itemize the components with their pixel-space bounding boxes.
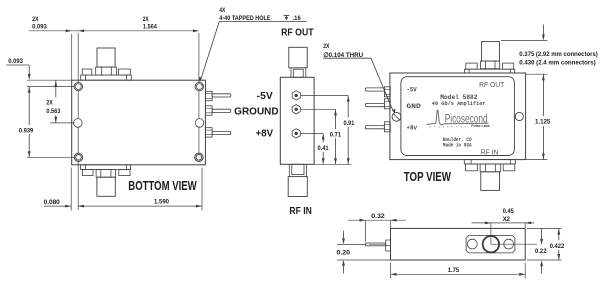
svg-text:1.564: 1.564 [143,24,157,31]
leader to tapped hole [199,21,220,82]
extension line box right top [524,223,526,229]
top view lid rounded rect [401,77,515,156]
dim 0.32 line [348,219,406,222]
bottom view RF connector (bottom) left lug [83,169,94,175]
svg-text:TOP VIEW: TOP VIEW [404,170,451,184]
side view body [280,77,314,164]
arrow at left hole line [78,29,84,32]
bottom view RF connector (bottom) flange [81,165,131,170]
svg-text:-5V: -5V [257,91,273,102]
svg-text:GND: GND [406,103,421,110]
tapped hole bottom-right [195,153,203,161]
top view supply pin 2 [365,99,390,109]
center conductor circle [483,236,499,252]
depth symbol [284,15,290,20]
extension line 1.590 right [201,168,203,211]
dim 0.22 arrows [535,229,547,274]
svg-text:2X: 2X [143,16,150,23]
tapped hole bottom-left [74,153,82,161]
svg-text:RF OUT: RF OUT [479,80,505,89]
extension line profile left top [390,220,392,228]
dim 0.20 [337,231,351,274]
label -5V [257,91,273,102]
svg-text:0.422: 0.422 [550,243,565,250]
pin line -5V [301,94,348,96]
bottom view RF connector (bottom) mid bar [96,169,116,177]
svg-text:0.45: 0.45 [503,208,514,215]
label Boulder CO [443,137,472,143]
label Model 5882 [440,94,477,101]
top view RF OUT connector flange [464,69,514,73]
top view RF IN connector flange [464,160,515,164]
svg-text:Pulse Labs: Pulse Labs [471,124,490,128]
bottom view RF connector (bottom) right lug [119,169,130,175]
leader to 0.104 hole [371,58,396,114]
picosecond logo text [445,111,488,125]
top view RF IN connector mid bar [480,164,501,172]
picosecond logo dashes [430,126,467,128]
callout underline [219,20,306,22]
label RF OUT [281,28,314,39]
tapped hole top-right [195,82,203,90]
callout 0.104 underline [323,57,371,59]
top view body outline [390,73,526,160]
bottom view RF connector (bottom) body [97,177,115,196]
svg-text:Made in USA: Made in USA [443,142,472,148]
svg-text:2X: 2X [46,99,53,106]
dim 1.125 [535,74,551,159]
dim 0.080 text [44,199,61,206]
bottom view supply pin 1 [205,91,230,100]
svg-text:RF IN: RF IN [481,147,499,156]
center conductor crosshair [491,223,537,245]
label +8V [256,129,274,140]
top view label RF IN [481,147,499,156]
svg-text:0.093: 0.093 [32,23,47,30]
svg-text:GROUND: GROUND [234,106,278,117]
extension line box left bottom [70,168,72,211]
picosecond logo pulse labs tag [471,124,490,128]
svg-text:X2: X2 [503,216,511,223]
svg-text:0.093: 0.093 [8,58,23,65]
top view supply pin 3 [365,122,390,132]
bottom view RF connector (top) left lug [82,69,92,75]
svg-text:4X: 4X [219,7,226,14]
svg-text:1.590: 1.590 [154,199,169,206]
dim 0.45 line [472,222,535,225]
connector slot outline [466,235,515,253]
dim 0.375 arrow [542,25,545,41]
extension line mid holes left [50,122,73,124]
svg-text:0.91: 0.91 [344,120,355,127]
top view supply pin 1 [365,87,390,97]
side view feedthrough pin -5V [292,91,300,100]
top view RF IN connector right lug [503,164,515,171]
slot hole right [504,239,514,249]
dim 0.45 X2 text [503,208,514,223]
svg-text:RF OUT: RF OUT [281,28,314,39]
pin line GROUND [301,108,336,110]
side profile pin block [386,240,391,251]
picosecond logo pulse waveform [427,110,489,125]
dim 0.080 line [44,205,71,208]
svg-text:BOTTOM VIEW: BOTTOM VIEW [128,179,196,193]
dim 0.422 [550,229,565,260]
connector top extension line [501,40,547,42]
note 0.430 2.4mm [519,59,595,66]
profile bottom extension left [337,259,391,261]
dim 2X 1.564 text [143,16,157,31]
arrow at right hole line [193,29,199,32]
top view RF OUT connector left lug [466,63,477,69]
top view RF IN connector left lug [466,164,478,171]
extension line box left top [71,34,73,80]
svg-text:0.939: 0.939 [19,127,34,134]
svg-text:0.32: 0.32 [371,213,385,220]
dim 0.939 [19,87,34,157]
hole centerline right [198,33,200,153]
dim 2X 0.093 top text [32,16,47,31]
svg-text:+8V: +8V [256,129,274,140]
bottom view supply pin 3 [205,128,230,137]
side view feedthrough pin +8V [292,129,300,138]
svg-text:RF IN: RF IN [289,206,312,217]
hole mid-right [195,119,204,128]
slot hole left [467,239,477,249]
side profile body [391,228,526,260]
box bottom extension line right [526,159,548,161]
extension line profile bottom right [527,259,562,261]
side view feedthrough pin GROUND [292,105,300,114]
note 0.375 2.92mm [519,51,598,58]
label Made in USA [443,142,472,148]
pin centerline extension [337,243,365,245]
svg-text:1.125: 1.125 [535,119,551,126]
label TOP VIEW [404,170,451,184]
dim 0.91 [344,96,355,165]
dim 0.71 [330,110,342,165]
dim 0.093 left text [8,58,23,65]
callout 4X 4-40 TAPPED HOLE [219,7,301,22]
tapped hole top-left [74,82,82,90]
svg-text:0.430 (2.4 mm connectors): 0.430 (2.4 mm connectors) [519,59,595,66]
dim 1.590 [78,199,202,208]
top view RF OUT connector right lug [503,63,514,69]
svg-text:1.75: 1.75 [448,267,460,274]
extension line side body bottom [314,163,351,165]
pin line +8V [301,132,323,134]
label GROUND [234,106,278,117]
hole mid-left [74,119,83,128]
side view RF OUT connector body [289,47,307,68]
svg-text:-5V: -5V [406,87,416,94]
dim 2X 0.563 [46,81,60,123]
side profile pin [366,243,386,246]
svg-text:2X: 2X [32,16,39,23]
svg-text:+8v: +8v [406,125,417,132]
svg-text:2X: 2X [323,43,330,50]
bottom view RF connector (top) flange [81,75,132,80]
top view label GND [406,103,421,110]
hole centerline left [77,33,79,210]
extension line bottom holes left [27,156,74,158]
mounting hole right [515,112,523,120]
extension line 1.75 left [390,263,392,279]
arrow at box left edge [66,29,72,32]
top view label RF OUT [479,80,505,89]
svg-text:0.563: 0.563 [46,108,60,115]
label 40 Gb/s Amplifier [432,101,486,107]
extension line 1.75 right [524,263,526,279]
dim 1.75 [391,267,526,276]
label RF IN [289,206,312,217]
svg-text:0.71: 0.71 [330,131,342,138]
label BOTTOM VIEW [128,179,196,193]
top view RF OUT connector body [482,42,500,62]
callout 2X 0.104 THRU [323,43,363,59]
bottom view RF connector (top) right lug [119,69,131,75]
svg-text:0.080: 0.080 [44,199,61,206]
top view RF IN connector body [481,172,500,191]
bottom view supply pin 2 [205,106,230,115]
dim 0.41 [318,134,329,165]
svg-text:0.375 (2.92 mm connectors): 0.375 (2.92 mm connectors) [519,51,598,58]
dim 0.093 leader [6,65,30,80]
extension line pin tip [365,220,367,241]
mounting hole left with slot [392,112,401,121]
bottom view body outline [72,80,206,165]
box top extension line right [526,73,548,75]
dim 0.32 text [371,213,385,220]
svg-text:0.41: 0.41 [318,145,329,152]
side view RF IN connector neck [289,164,306,176]
extension line profile top right [527,227,562,229]
dim line top [29,30,199,32]
svg-text:0.20: 0.20 [337,250,351,257]
top view label -5V [406,87,416,94]
side view RF OUT connector neck [291,68,306,78]
top view RF OUT connector mid bar [480,61,499,69]
extension line top holes left [27,86,74,88]
side view RF IN connector body [288,177,307,197]
top view label +8v [406,125,417,132]
extension line box top left [27,79,72,81]
svg-text:0.22: 0.22 [535,248,547,255]
bottom view RF connector (top) mid bar [96,67,117,75]
bottom view RF connector (top) body [97,48,115,67]
svg-text:40 Gb/s Amplifier: 40 Gb/s Amplifier [432,101,486,107]
